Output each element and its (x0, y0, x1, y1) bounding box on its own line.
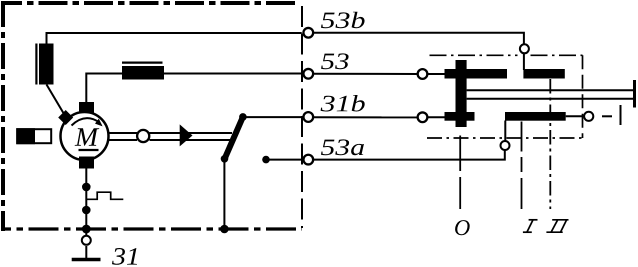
park switch lever (221, 113, 247, 163)
wire: upper contact into bar (428, 73, 446, 75)
terminal 53a (303, 155, 313, 165)
wire: bottom-right bar to right contact (566, 115, 585, 117)
switch contact bar vertical (456, 60, 467, 127)
mechanical linkage double line (motor to park switch) (108, 133, 232, 140)
wire: lever pivot to terminal 31b (243, 116, 302, 118)
wire: motor ground lead down (85, 169, 87, 236)
terminal 31b (303, 112, 313, 122)
label 53a (321, 139, 364, 155)
wire: resistor R1 top to terminal 53b (47, 33, 302, 44)
switch contact bar bottom-left (445, 112, 475, 121)
connector circle on linkage (137, 130, 149, 142)
motor brush (bottom) (79, 157, 94, 169)
wire: lever contact down to housing frame (223, 159, 225, 229)
drive direction arrow (180, 124, 193, 146)
label 53 (321, 53, 349, 69)
wire: terminal 31b to switch left lower contact (314, 116, 419, 118)
junction dot at housing frame (82, 225, 91, 234)
connector circle on ground lead (82, 236, 91, 245)
terminal 53 (303, 69, 313, 79)
resistor R2 (horizontal, filled bar) (122, 63, 164, 80)
park contact dot 53a (262, 156, 270, 164)
switch bottom contact circle (501, 141, 510, 150)
label O (455, 220, 470, 235)
switch contact bar top-right (523, 69, 564, 79)
label 31 (112, 248, 137, 265)
junction dot on ground lead (upper) (82, 183, 91, 192)
wire: top contact into switch bar (523, 54, 525, 71)
label 31b (321, 95, 365, 112)
wire: terminal 53b to switch top contact (314, 33, 524, 44)
wire: bottom contact up into bar (504, 121, 506, 141)
switch contact bar top-left (445, 69, 508, 79)
label 53b (321, 12, 365, 29)
cam contact step symbol (86, 192, 123, 199)
ground symbol 31 (72, 246, 101, 260)
label II (546, 220, 568, 232)
switch assembly frame (dash-dot) (427, 55, 583, 138)
switch left lower contact circle (418, 112, 428, 122)
motor label M with underline (75, 128, 100, 150)
wire: terminal 53 to switch left upper contact (314, 73, 419, 75)
terminal 53b (303, 28, 313, 38)
position line I (dashed) (521, 122, 523, 152)
position line O (dashed) (459, 136, 461, 172)
switch right contact circle (584, 112, 593, 121)
position line II (dash-dot) (549, 79, 551, 209)
dash-dot continuation right of contact (602, 105, 621, 125)
switch drive double line (467, 90, 633, 99)
thermal circuit breaker (half-filled rectangle) (16, 128, 51, 144)
wire: lower contact into bar (428, 116, 446, 118)
switch top contact circle (520, 44, 529, 53)
motor M armature circle (61, 112, 109, 160)
junction dot on ground lead (lower) (82, 206, 91, 215)
switch left upper contact circle (418, 69, 428, 79)
housing frame right edge (dashed) (301, 6, 303, 228)
wire: motor top brush up and to resistor R2 / terminal 53 (86, 74, 301, 104)
wire: terminal 53a to switch bottom contact (314, 151, 505, 160)
switch contact bar bottom-right (505, 112, 566, 121)
motor rotation arc arrow (72, 118, 103, 126)
wire: resistor R1 bottom diagonal to brush diamond (47, 85, 65, 115)
housing frame (dash-dot box of wiper motor unit) (1, 1, 302, 231)
motor brush (top) (79, 102, 94, 113)
wire: park contact to terminal 53a (266, 159, 302, 161)
label I (523, 220, 538, 232)
resistor R1 (vertical winding, filled bar) (36, 44, 53, 85)
motor brush diamond (third brush, top-left) (58, 110, 73, 125)
junction dot lever wire at frame (220, 225, 229, 234)
switch drive end bar (633, 80, 636, 108)
